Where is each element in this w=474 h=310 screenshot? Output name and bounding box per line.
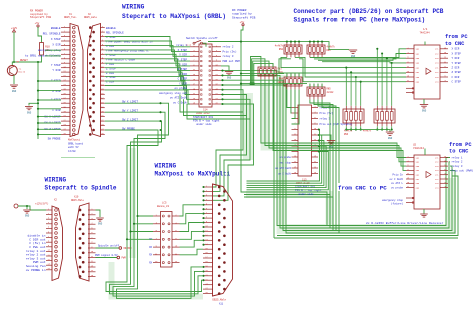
svg-text:X11: X11 (219, 302, 224, 305)
svg-text:17: 17 (101, 96, 103, 99)
labels C14 left signals (159, 43, 187, 104)
connector X10 pins (79, 207, 96, 278)
connector X2b pins (46, 207, 57, 271)
svg-text:12: 12 (101, 74, 103, 77)
svg-text:25: 25 (205, 292, 207, 294)
svg-text:relay 3: relay 3 (223, 54, 234, 58)
connector LC5 body (161, 212, 173, 268)
title: WIRING MaXYposi to MaXYpulti (155, 163, 231, 178)
wire bus underlay (limit verticals) (129, 148, 136, 258)
svg-text:supplied by: supplied by (232, 12, 252, 16)
labels LC5 RX marks (149, 238, 152, 264)
svg-text:16: 16 (444, 160, 446, 162)
svg-text:9: 9 (193, 64, 194, 67)
wire RN2.1 to U1 in5 (281, 57, 406, 67)
svg-text:19: 19 (63, 105, 65, 108)
svg-text:17: 17 (193, 83, 195, 86)
svg-text:24: 24 (314, 167, 316, 169)
svg-text:19: 19 (193, 87, 195, 90)
junction +12V node (13, 61, 15, 63)
svg-text:18: 18 (444, 47, 446, 49)
wire U1 gnd (423, 99, 425, 104)
svg-text:ov ATZ DoUt: ov ATZ DoUt (275, 167, 291, 170)
wire band vertical left (273, 71, 275, 238)
labels C14 right signals (223, 45, 241, 63)
svg-text:from PC: from PC (445, 34, 468, 40)
svg-text:under side: under side (196, 122, 212, 126)
ground (supply bottom-left) (23, 210, 31, 217)
junction supply (26, 205, 28, 207)
ground (C14) (225, 72, 233, 80)
junction rail gnd (37, 102, 39, 104)
wire bus underlay (C14-U2 loop) (282, 75, 452, 229)
resistor network RN3 (258, 64, 276, 80)
svg-text:C DIR: C DIR (452, 76, 460, 79)
svg-text:1: 1 (206, 186, 207, 188)
resistor network RN1 (307, 42, 325, 58)
svg-text:23: 23 (205, 283, 207, 285)
wire C14 pin10 to ground (221, 66, 229, 72)
wire bus limit switches to LC5 (105, 102, 169, 239)
label RN4 (277, 77, 283, 83)
svg-text:19: 19 (101, 105, 103, 108)
svg-text:free emergency plug GRBL b.: free emergency plug GRBL b. (106, 49, 150, 53)
svg-text:PWM: PWM (122, 257, 127, 260)
supply +5v (left) (35, 22, 40, 27)
wire switch right (203, 43, 207, 47)
svg-text:2: 2 (216, 44, 217, 47)
wire rail1 to ground (325, 42, 349, 50)
svg-text:GND: GND (25, 214, 30, 217)
transistor Q1 internals (10, 66, 14, 75)
svg-text:ENABLE: ENABLE (106, 27, 116, 30)
label RN2 (275, 44, 284, 50)
wire supply gnd stub (26, 206, 28, 209)
labels U1 outputs (452, 48, 462, 84)
svg-text:9: 9 (48, 244, 49, 247)
label X2 refdes (84, 13, 97, 19)
wire U1 vcc (424, 42, 426, 46)
wire rail RN5 (241, 83, 307, 85)
supply +12V(5V?) circle (14, 204, 18, 208)
svg-text:Stepcraft PCB: Stepcraft PCB (232, 15, 256, 19)
connector X2 pin numbers (101, 25, 104, 135)
svg-text:ENABLE: ENABLE (51, 27, 61, 30)
svg-text:C DIR: C DIR (179, 82, 187, 85)
wire switch common rail (37, 62, 39, 139)
ground (rail1) (349, 50, 357, 58)
title: WIRING Stepcraft to MaXYposi (GRBL) (122, 3, 226, 19)
wires switch rail to X1 (37, 80, 61, 136)
wires RN7 tops to U1 inputs (376, 48, 393, 106)
svg-text:23: 23 (294, 167, 296, 169)
svg-text:DB15-Male: DB15-Male (71, 199, 84, 202)
ground (switch rail) (25, 107, 33, 115)
svg-text:SW X LIMIT: SW X LIMIT (122, 101, 139, 104)
wire bus corner below C14 (180, 95, 250, 120)
svg-text:2: 2 (407, 156, 408, 158)
label RN5 (327, 87, 335, 93)
svg-text:REL SPINDLE: REL SPINDLE (106, 32, 124, 35)
title: WIRING Stepcraft to Spindle (45, 177, 117, 192)
wire X10 to ground (96, 210, 101, 217)
svg-text:22: 22 (63, 119, 65, 122)
wire switch C row (45, 55, 61, 57)
svg-text:9: 9 (64, 61, 65, 64)
ground (C13) (327, 141, 335, 149)
svg-text:16: 16 (444, 52, 446, 54)
svg-text:STEPCRAFT DX1: STEPCRAFT DX1 (193, 116, 214, 119)
op-amp U1 pins (406, 47, 448, 83)
svg-text:4x102: 4x102 (327, 91, 335, 94)
svg-text:disable in: disable in (27, 234, 45, 238)
wire RESET node (12, 55, 41, 66)
svg-text:GND: GND (98, 222, 103, 225)
connector C13 pins (292, 106, 319, 174)
labels C13 lower-left signals (275, 156, 291, 176)
label X10 refdes (71, 195, 84, 201)
note below X1X2 (68, 139, 84, 153)
wire PWM signal (96, 257, 118, 259)
svg-text:relay 2: relay 2 (223, 45, 234, 49)
svg-text:DB25_fem.: DB25_fem. (64, 16, 77, 19)
svg-text:RX POWER: RX POWER (232, 9, 247, 12)
svg-text:18: 18 (205, 261, 207, 263)
ground (Q1) (10, 85, 18, 93)
svg-text:C (5v) in: C (5v) in (29, 241, 45, 245)
wire spindle on/off (96, 247, 120, 249)
svg-text:SW Y LIMIT: SW Y LIMIT (122, 110, 139, 113)
svg-text:21: 21 (294, 161, 296, 163)
resistor network RN2 (284, 42, 302, 58)
label C13 refdes (296, 178, 310, 184)
wires RN6 RN7 bottoms (345, 126, 393, 130)
wires RN5 drop (310, 99, 339, 233)
labels X2 signal names (106, 27, 153, 83)
svg-text:emergency stop: emergency stop (382, 199, 404, 202)
svg-text:with 5V: with 5V (68, 146, 79, 149)
svg-text:19: 19 (294, 156, 296, 158)
svg-text:3: 3 (444, 186, 445, 188)
svg-text:7: 7 (91, 236, 92, 239)
svg-text:WIRING: WIRING (155, 163, 177, 170)
resistor R10 (40, 43, 44, 56)
svg-text:7: 7 (444, 178, 445, 180)
label spindle on/off (98, 245, 132, 250)
labels U2 outputs (452, 155, 474, 172)
svg-text:relay 1: relay 1 (452, 155, 463, 159)
svg-text:15: 15 (407, 76, 409, 78)
op-amp U1 OE pins (406, 88, 414, 94)
resistor network RN4 (284, 74, 302, 90)
svg-text:Wanna_LS: Wanna_LS (157, 205, 170, 208)
svg-text:relay 2 out: relay 2 out (26, 253, 46, 257)
svg-text:16: 16 (205, 252, 207, 254)
svg-text:Connector part (DB25/26) on St: Connector part (DB25/26) on Stepcraft PC… (294, 8, 444, 15)
svg-text:relay 3 out: relay 3 out (26, 256, 46, 260)
node PWM (117, 256, 120, 259)
svg-text:22: 22 (215, 92, 217, 95)
svg-text:ov probe: ov probe (391, 187, 404, 190)
svg-text:22: 22 (205, 279, 207, 281)
svg-text:relay 1 out: relay 1 out (26, 249, 46, 253)
svg-text:relay 2: relay 2 (452, 160, 463, 164)
svg-text:SW Z LIMIT: SW Z LIMIT (122, 119, 139, 122)
svg-text:12: 12 (215, 68, 217, 71)
svg-text:PWM out: PWM out (33, 261, 46, 264)
svg-text:CJ/08: CJ/08 (68, 150, 76, 153)
wire Q1 source to ground (13, 75, 15, 84)
svg-text:11: 11 (205, 230, 207, 232)
ground (X10) (96, 218, 104, 225)
svg-text:X DIR: X DIR (52, 43, 60, 46)
svg-text:10: 10 (314, 128, 316, 130)
svg-text:RN6: RN6 (344, 133, 349, 136)
note C14 Stepcraft (193, 116, 220, 126)
svg-text:17: 17 (205, 257, 207, 259)
svg-text:PWM signal 0-5V: PWM signal 0-5V (95, 254, 118, 257)
wire +5v to R10 (38, 27, 42, 43)
wire below X1X2 (61, 157, 95, 159)
svg-text:RESET: RESET (20, 59, 28, 62)
svg-text:GRBL board: GRBL board (68, 142, 84, 145)
svg-text:free power GRBL board with 5V: free power GRBL board with 5V (106, 40, 153, 44)
wire RN2.4 to U1 in8 (299, 59, 406, 82)
wire gnd rail drop (389, 130, 391, 132)
svg-text:20: 20 (205, 270, 207, 272)
svg-text:2: 2 (48, 212, 49, 215)
svg-text:2: 2 (64, 30, 65, 33)
wire C13 gnd (318, 135, 331, 141)
connector X10 DB15 body (76, 203, 90, 281)
svg-text:to CNC: to CNC (445, 41, 465, 47)
svg-text:Z STEP: Z STEP (178, 68, 188, 71)
ground (U1) (420, 105, 428, 113)
svg-text:C STEP: C STEP (452, 81, 462, 84)
svg-text:STEPCRAFT DX1: STEPCRAFT DX1 (295, 186, 316, 189)
wire bus underlay (C14-DB25 leg) (243, 93, 253, 160)
labels X2b signals (26, 234, 46, 272)
node spindle on/off (119, 247, 122, 250)
svg-text:GND: GND (227, 77, 232, 80)
svg-text:ov C DoUt: ov C DoUt (278, 172, 291, 175)
svg-text:Y DIR: Y DIR (179, 63, 187, 66)
wire switch to trunk (208, 41, 241, 43)
svg-text:relay 3: relay 3 (320, 117, 331, 120)
svg-text:SW PROBE: SW PROBE (48, 138, 61, 141)
svg-text:18: 18 (444, 156, 446, 158)
wires C13 right bus (247, 128, 329, 189)
wires RN3 to U2 inputs (261, 79, 406, 170)
note: RX POWER supplied by Stepcraft PCB (right) (232, 9, 256, 19)
wire RN1.1 to U1 in1 (310, 49, 406, 58)
wire bus C14 to DB25 top (213, 89, 254, 201)
svg-text:14: 14 (444, 165, 446, 167)
svg-text:DB25_Male: DB25_Male (213, 299, 227, 302)
labels U2 emergency (382, 199, 404, 206)
label PWM signal (95, 254, 126, 259)
svg-text:8: 8 (314, 123, 315, 125)
svg-text:19: 19 (205, 266, 207, 268)
label RN1 (327, 45, 336, 51)
wire RN1.4 to U1 in4 (322, 62, 406, 63)
svg-text:Stepcraft to Spindle: Stepcraft to Spindle (45, 185, 117, 192)
label U2 (413, 143, 424, 150)
svg-text:12: 12 (314, 134, 316, 136)
wire RN1.2 to U1 in2 (314, 54, 406, 59)
svg-text:C PWL out: C PWL out (29, 246, 45, 249)
label Q1 (19, 67, 26, 73)
svg-text:17: 17 (63, 96, 65, 99)
svg-text:4: 4 (206, 199, 207, 201)
label LC5 refdes (157, 201, 170, 208)
svg-text:ov C DoUt: ov C DoUt (389, 178, 403, 181)
op-amp U2 OE pins (406, 197, 414, 203)
connector X11 pins (203, 186, 226, 295)
supply +12V (11, 27, 18, 32)
svg-text:GND: GND (27, 111, 32, 114)
svg-text:WIRING: WIRING (45, 177, 67, 184)
svg-text:GND: GND (422, 110, 427, 113)
wires X2 to C14 (105, 37, 190, 105)
svg-text:22: 22 (314, 161, 316, 163)
note C13 Stepcraft (295, 186, 322, 196)
wire band edge low (277, 176, 458, 236)
wire U2 gnd (423, 209, 425, 214)
svg-text:5: 5 (444, 182, 445, 184)
svg-text:Y STEP: Y STEP (51, 64, 61, 67)
label: from PC to CNC (U1) (445, 34, 468, 47)
ground (U2) (420, 214, 428, 217)
wire bus LC5 to DB25 bottom (U route) (106, 215, 203, 298)
svg-text:25: 25 (294, 172, 296, 174)
svg-text:13: 13 (407, 178, 409, 180)
svg-text:3: 3 (206, 195, 207, 197)
svg-text:GND: GND (12, 90, 17, 93)
svg-text:Stepcraft PCB: Stepcraft PCB (30, 15, 51, 19)
wire supply to connector (18, 206, 46, 210)
svg-text:Z STEP: Z STEP (452, 71, 462, 74)
op-amp U1 triangle (426, 68, 431, 74)
svg-text:12: 12 (47, 258, 49, 261)
wire bus underlay (RN3-U2) (265, 85, 397, 147)
svg-text:4: 4 (407, 52, 408, 54)
svg-text:4: 4 (314, 112, 315, 114)
svg-text:8: 8 (407, 61, 408, 63)
junction rail top (37, 61, 39, 63)
svg-text:REL SPINDLE: REL SPINDLE (43, 33, 61, 36)
svg-text:14: 14 (314, 139, 316, 141)
svg-text:12: 12 (91, 260, 93, 263)
svg-text:13: 13 (407, 71, 409, 73)
svg-text:15: 15 (407, 182, 409, 184)
svg-text:7: 7 (193, 59, 194, 62)
svg-text:Prio (5v): Prio (5v) (223, 50, 237, 54)
connector X11 DB25_male body (213, 184, 233, 296)
junction rail RN4 (240, 73, 242, 75)
ground (RN7) (386, 132, 394, 140)
svg-text:X STEP: X STEP (178, 49, 188, 52)
svg-text:5: 5 (206, 203, 207, 205)
labels SW limit right side (122, 101, 139, 131)
connector C14 CON4-2x13 body (199, 44, 212, 107)
wires RN3 tops (nested corners) (249, 57, 273, 85)
svg-text:em. stop: em. stop (280, 161, 292, 164)
svg-text:17: 17 (407, 186, 409, 188)
wires RN4 tops (287, 74, 299, 77)
svg-text:12: 12 (63, 74, 65, 77)
svg-text:2: 2 (102, 30, 103, 33)
svg-text:20: 20 (314, 156, 316, 158)
svg-text:relay 1: relay 1 (176, 43, 187, 47)
svg-text:22: 22 (101, 119, 103, 122)
wires RN4 to C13 (287, 89, 299, 124)
connector X1 pins (61, 26, 75, 135)
svg-text:9: 9 (444, 173, 445, 175)
svg-text:X STEP: X STEP (452, 52, 462, 55)
label RN6 (344, 130, 353, 136)
wire emergency plug row (45, 49, 61, 51)
svg-text:MaXYposi to MaXYpulti: MaXYposi to MaXYpulti (155, 171, 231, 178)
svg-text:LC5: LC5 (162, 201, 167, 204)
svg-text:WIRING: WIRING (122, 3, 145, 10)
svg-text:X DIR: X DIR (452, 48, 460, 51)
svg-text:SW PROBE: SW PROBE (122, 127, 135, 130)
svg-text:(future): (future) (391, 203, 404, 206)
svg-text:from CNC to PC: from CNC to PC (338, 185, 387, 192)
svg-text:Stepcraft to MaXYposi (GRBL): Stepcraft to MaXYposi (GRBL) (122, 13, 226, 20)
svg-text:emergency stop out: emergency stop out (159, 92, 187, 95)
svg-text:74AC244: 74AC244 (413, 147, 424, 150)
wire +5v rail1 (241, 41, 325, 43)
svg-text:7: 7 (48, 235, 49, 238)
wire U2 vcc (424, 149, 426, 156)
wire RN2.3 to U1 in7 (295, 57, 406, 77)
svg-text:Z DIR: Z DIR (452, 67, 460, 70)
junction rail RN5 (240, 83, 242, 85)
svg-text:Y DIR: Y DIR (52, 69, 60, 72)
connector X1 DB25_female body (70, 24, 83, 137)
svg-text:9: 9 (206, 221, 207, 223)
wire bus underlay (mid horizontals) (246, 195, 329, 227)
svg-text:relay 3: relay 3 (452, 164, 463, 168)
label RESET (17, 59, 29, 62)
svg-text:24: 24 (205, 288, 207, 290)
label: from PC to CNC (U2) (449, 142, 472, 155)
svg-text:on probe: on probe (175, 86, 188, 90)
svg-text:housing fan: housing fan (26, 264, 46, 268)
svg-text:Y STEP: Y STEP (452, 62, 462, 65)
svg-text:supplied by: supplied by (30, 12, 48, 16)
svg-text:Signals from from PC (here MaX: Signals from from PC (here MaXYposi) (294, 16, 426, 23)
svg-text:PWN out PWM: PWN out PWM (223, 60, 241, 63)
wire rail RN4 (241, 73, 284, 75)
svg-text:6: 6 (407, 57, 408, 59)
svg-text:5: 5 (444, 76, 445, 78)
svg-text:3: 3 (444, 80, 445, 82)
connector LC5 pins (153, 214, 180, 264)
svg-text:2: 2 (314, 106, 315, 108)
svg-text:Y STEP: Y STEP (178, 59, 188, 62)
connector X2b DB15 body (52, 206, 63, 281)
wire bus LC5 to DB25 mid (180, 205, 204, 255)
svg-text:9: 9 (444, 66, 445, 68)
svg-text:8: 8 (407, 169, 408, 171)
labels C13 right signals (320, 106, 354, 126)
svg-text:8: 8 (206, 217, 207, 219)
svg-text:C DIR: C DIR (52, 109, 60, 112)
svg-text:12: 12 (444, 169, 446, 171)
